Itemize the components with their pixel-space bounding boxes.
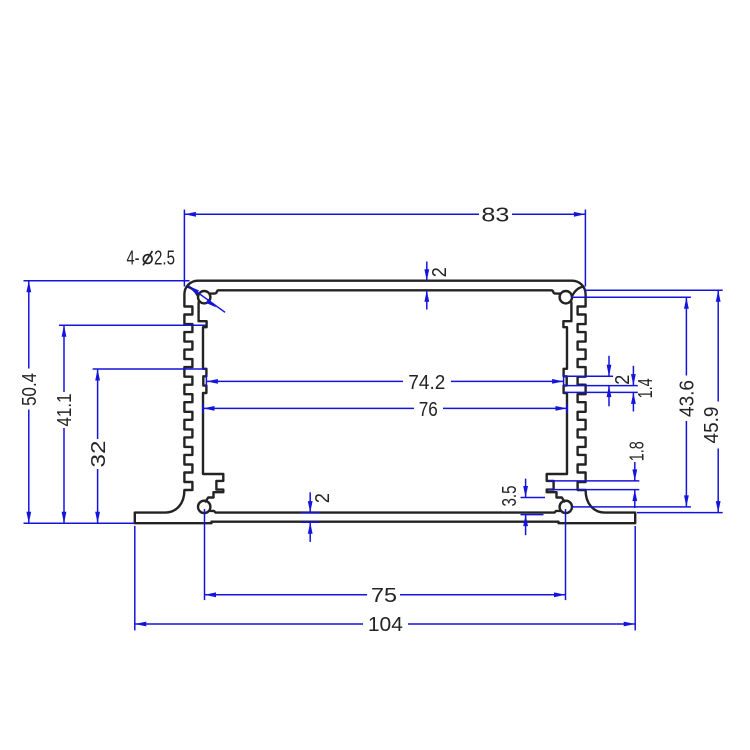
dimension 104 (overall width) (134, 526, 136, 630)
top-left inner corner fillet (187, 287, 197, 295)
top-left screw boss hole (198, 291, 210, 303)
profile outer outline with heatsink fins and base flange (135, 281, 635, 524)
dimension 75 (between bottom bosses) (204, 509, 206, 600)
svg-text:2: 2 (312, 493, 334, 503)
bottom-left screw boss hole (198, 501, 210, 513)
dimension 76 (inner width) (202, 404, 204, 414)
svg-text:74.2: 74.2 (408, 372, 445, 394)
right inner wall: relief, tab, card guide, bottom boss (547, 302, 572, 501)
svg-text:2.5: 2.5 (154, 247, 175, 269)
svg-text:43.6: 43.6 (677, 380, 699, 417)
svg-text:76: 76 (419, 399, 438, 421)
bottom-right screw boss hole (560, 501, 572, 513)
dimension 74.2 (between card-guide faces) (205, 375, 207, 387)
svg-text:2: 2 (612, 375, 634, 385)
dimension 1.4 (guide tab) (564, 391, 638, 393)
svg-text:83: 83 (481, 205, 509, 227)
svg-text:3.5: 3.5 (499, 486, 521, 507)
svg-text:41.1: 41.1 (54, 394, 76, 427)
label 4-dia2.5 with leader to corner screw hole (188, 286, 225, 313)
dimension 2 (base plate thickness) (301, 521, 320, 523)
svg-text:50.4: 50.4 (19, 373, 41, 406)
left inner wall: relief, tab, card guide, bottom boss (199, 302, 224, 501)
dimension 32 (93, 368, 206, 370)
svg-text:2: 2 (429, 267, 451, 277)
svg-text:45.9: 45.9 (701, 407, 723, 444)
svg-text:104: 104 (368, 614, 403, 636)
svg-text:1.8: 1.8 (626, 441, 648, 461)
dimension 2 (card-guide groove) (564, 375, 613, 377)
svg-text:4-: 4- (127, 247, 140, 269)
top-right screw boss hole (560, 291, 572, 303)
dimension 45.9 (inner height) (584, 289, 723, 291)
cavity floor with boss ledges (210, 511, 560, 513)
top-right inner corner fillet (573, 287, 583, 295)
dimension 50.4 (overall height) (24, 280, 190, 282)
svg-text:32: 32 (88, 441, 110, 468)
inner ceiling with end ledges (210, 290, 560, 293)
dimension 43.6 (screw hole centres) (572, 296, 691, 298)
dimension 1.8 (boss notch) (549, 480, 639, 482)
dimension 83 (top outer width) (183, 210, 185, 287)
dimension 41.1 (59, 324, 206, 326)
dimension 2 (top wall thickness) (426, 262, 428, 281)
dimension 3.5 (boss step height) (521, 497, 546, 499)
svg-text:75: 75 (371, 585, 397, 607)
svg-text:1.4: 1.4 (635, 378, 657, 398)
